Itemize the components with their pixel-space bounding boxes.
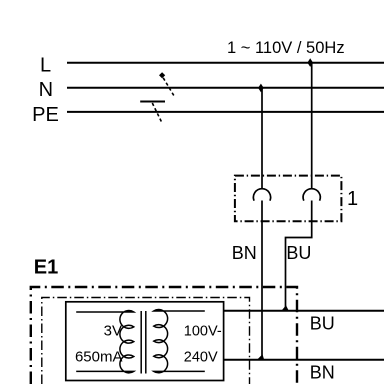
svg-text:650mA: 650mA bbox=[75, 349, 123, 366]
svg-text:1: 1 bbox=[347, 188, 358, 210]
svg-text:100V-: 100V- bbox=[184, 324, 222, 340]
svg-text:BN: BN bbox=[310, 362, 335, 382]
svg-text:E1: E1 bbox=[34, 257, 58, 279]
svg-text:1 ~ 110V / 50Hz: 1 ~ 110V / 50Hz bbox=[227, 39, 345, 57]
svg-text:N: N bbox=[39, 79, 53, 101]
svg-text:PE: PE bbox=[32, 104, 59, 126]
svg-text:3V: 3V bbox=[104, 323, 122, 340]
svg-text:BU: BU bbox=[286, 243, 311, 263]
svg-text:240V: 240V bbox=[184, 350, 218, 366]
svg-text:BN: BN bbox=[232, 243, 257, 263]
svg-text:BU: BU bbox=[310, 314, 335, 334]
svg-text:L: L bbox=[40, 54, 51, 76]
